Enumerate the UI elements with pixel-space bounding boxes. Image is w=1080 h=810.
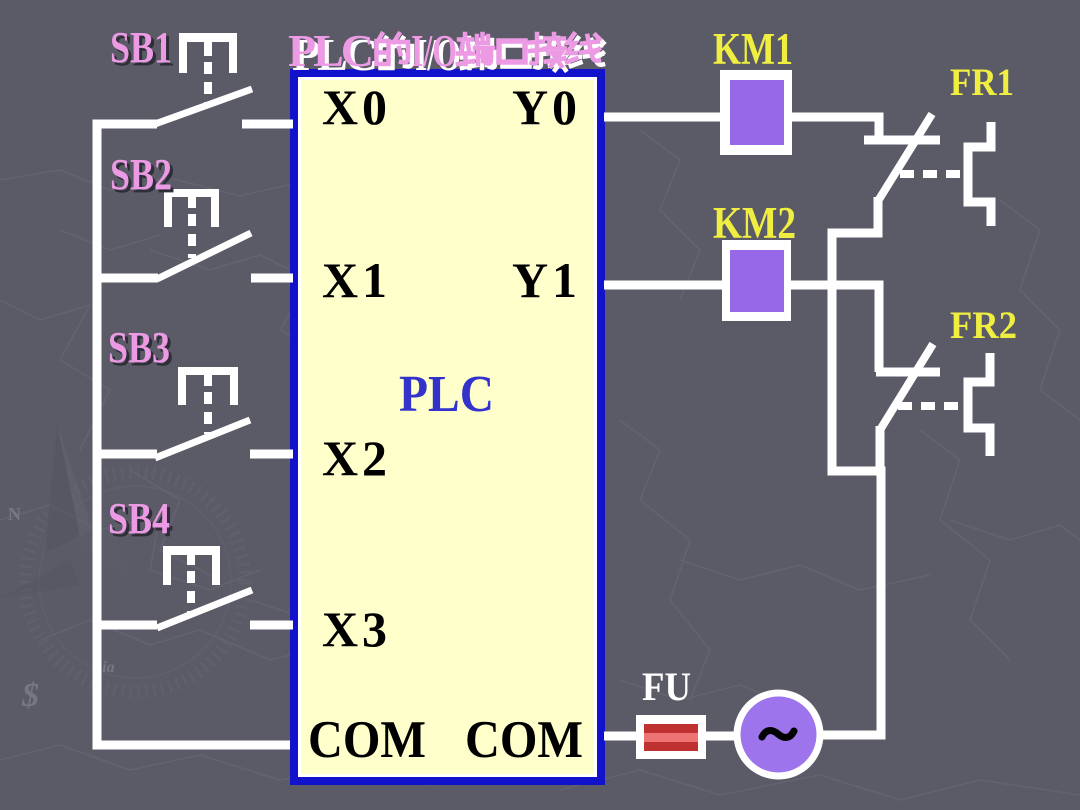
svg-text:X0: X0 xyxy=(322,79,387,135)
svg-text:SB1: SB1 xyxy=(110,23,172,72)
svg-text:X1: X1 xyxy=(322,252,387,308)
AC source xyxy=(734,690,824,780)
svg-text:X2: X2 xyxy=(322,430,387,486)
label SB2 xyxy=(110,150,175,202)
svg-text:SB2: SB2 xyxy=(110,150,172,199)
svg-text:SB4: SB4 xyxy=(108,494,170,543)
title CJK hand-drawn glyphs: 的 端 口 接 线 xyxy=(377,34,604,70)
svg-text:FR2: FR2 xyxy=(950,304,1017,347)
svg-text:X3: X3 xyxy=(322,601,387,657)
wire SB3 to bus xyxy=(97,450,157,459)
wire FR2 output down to source xyxy=(823,426,881,735)
svg-text:KM1: KM1 xyxy=(713,24,793,74)
svg-text:Y1: Y1 xyxy=(512,252,577,308)
faint compass rose bottom-left xyxy=(0,424,245,692)
svg-text:FR1: FR1 xyxy=(950,61,1014,104)
svg-text:FU: FU xyxy=(642,664,691,709)
FR1 thermal relay contact xyxy=(864,114,991,226)
faint map decorations bottom-left xyxy=(8,504,115,714)
label SB4 xyxy=(108,494,173,546)
title PLC I/O (latin parts) xyxy=(288,25,378,80)
contactor coil KM1 xyxy=(720,70,792,155)
pushbutton SB3 xyxy=(155,367,250,458)
wire SB2 to bus xyxy=(97,274,158,283)
svg-text:PLC: PLC xyxy=(288,25,374,76)
wire SB3 to X2 xyxy=(250,450,293,459)
wire Y1 to KM2 to FR2 xyxy=(604,285,879,372)
wire left bus xyxy=(97,124,290,745)
label SB1 xyxy=(110,23,175,75)
wire SB4 to X3 xyxy=(250,621,293,630)
wire SB1 to X0 xyxy=(242,120,293,129)
fuse FU xyxy=(636,715,706,759)
FR2 thermal relay contact xyxy=(876,344,990,456)
wire COM to fuse to source xyxy=(604,732,740,741)
wire FR1 output to junction xyxy=(832,197,881,471)
svg-text:KM2: KM2 xyxy=(713,198,796,248)
svg-text:COM: COM xyxy=(465,711,583,769)
pushbutton SB4 xyxy=(157,546,252,628)
contactor coil KM2 xyxy=(722,240,791,321)
pushbutton SB2 xyxy=(157,189,251,279)
label SB3 xyxy=(108,323,173,375)
pushbutton SB1 xyxy=(155,33,252,124)
svg-text:I/O: I/O xyxy=(411,25,457,76)
wire SB2 to X1 xyxy=(251,274,293,283)
svg-text:PLC: PLC xyxy=(399,366,494,423)
svg-text:N: N xyxy=(8,504,21,524)
svg-text:$: $ xyxy=(21,677,39,714)
svg-text:COM: COM xyxy=(308,711,426,769)
svg-text:SB3: SB3 xyxy=(108,323,170,372)
wire SB4 to bus xyxy=(97,621,157,630)
svg-text:Y0: Y0 xyxy=(512,79,577,135)
PLC box U1 xyxy=(290,69,605,785)
wire Y0 to KM1 to FR1 xyxy=(604,117,879,140)
